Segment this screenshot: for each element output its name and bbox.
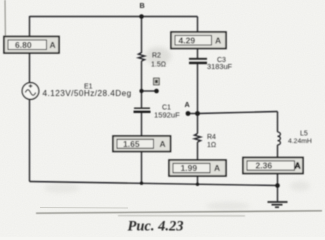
svg-text:4.24mH: 4.24mH [288,138,312,145]
svg-text:6.80: 6.80 [15,40,32,50]
svg-text:1592uF: 1592uF [154,111,180,120]
svg-text:A: A [215,36,221,46]
svg-text:1Ω: 1Ω [207,142,216,149]
svg-text:Рис. 4.23: Рис. 4.23 [128,219,184,235]
svg-text:1.5Ω: 1.5Ω [151,62,166,69]
svg-text:A: A [160,139,166,149]
svg-text:R2: R2 [152,53,161,60]
svg-text:4.29: 4.29 [179,35,196,45]
svg-text:2.36: 2.36 [256,161,273,171]
svg-text:A: A [50,40,56,50]
svg-text:B: B [140,1,145,10]
svg-text:4.123V/50Hz/28.4Deg: 4.123V/50Hz/28.4Deg [43,89,132,98]
svg-text:3183uF: 3183uF [207,62,233,71]
svg-text:1.65: 1.65 [123,139,140,149]
svg-text:A: A [214,163,220,173]
svg-text:A: A [295,161,301,171]
svg-text:A: A [185,100,190,109]
svg-text:1.99: 1.99 [181,163,198,173]
svg-text:R4: R4 [207,134,216,141]
svg-text:L5: L5 [300,131,308,138]
